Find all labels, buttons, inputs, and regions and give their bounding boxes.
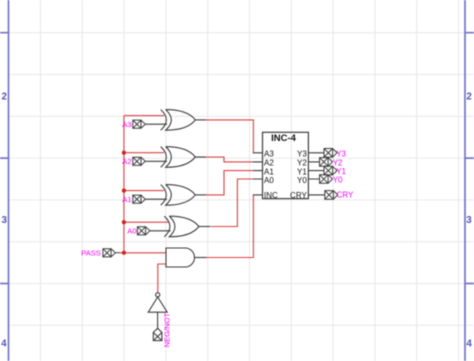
svg-text:Y0: Y0 [333,176,343,185]
svg-text:4: 4 [466,338,472,349]
svg-text:PASS: PASS [81,249,101,258]
svg-text:4: 4 [1,338,7,349]
svg-text:INC-4: INC-4 [271,133,297,144]
svg-text:INC: INC [264,191,278,200]
svg-text:A0: A0 [264,176,274,185]
svg-text:A1: A1 [122,195,131,204]
svg-text:2: 2 [2,91,8,102]
svg-text:3: 3 [2,215,8,226]
svg-text:A0: A0 [127,226,136,235]
svg-text:Y3: Y3 [336,149,346,158]
svg-text:2: 2 [466,91,472,102]
svg-text:A2: A2 [122,157,131,166]
svg-text:A3: A3 [264,150,274,159]
svg-text:Y2: Y2 [333,159,343,168]
svg-text:A2: A2 [264,159,274,168]
svg-text:CRY: CRY [290,191,307,200]
svg-text:3: 3 [466,215,472,226]
svg-text:A3: A3 [122,120,131,129]
svg-text:Y3: Y3 [297,150,307,159]
svg-text:NEG/NOT: NEG/NOT [162,312,171,347]
svg-text:Y0: Y0 [297,176,307,185]
svg-text:Y2: Y2 [297,159,307,168]
svg-text:CRY: CRY [337,191,354,200]
